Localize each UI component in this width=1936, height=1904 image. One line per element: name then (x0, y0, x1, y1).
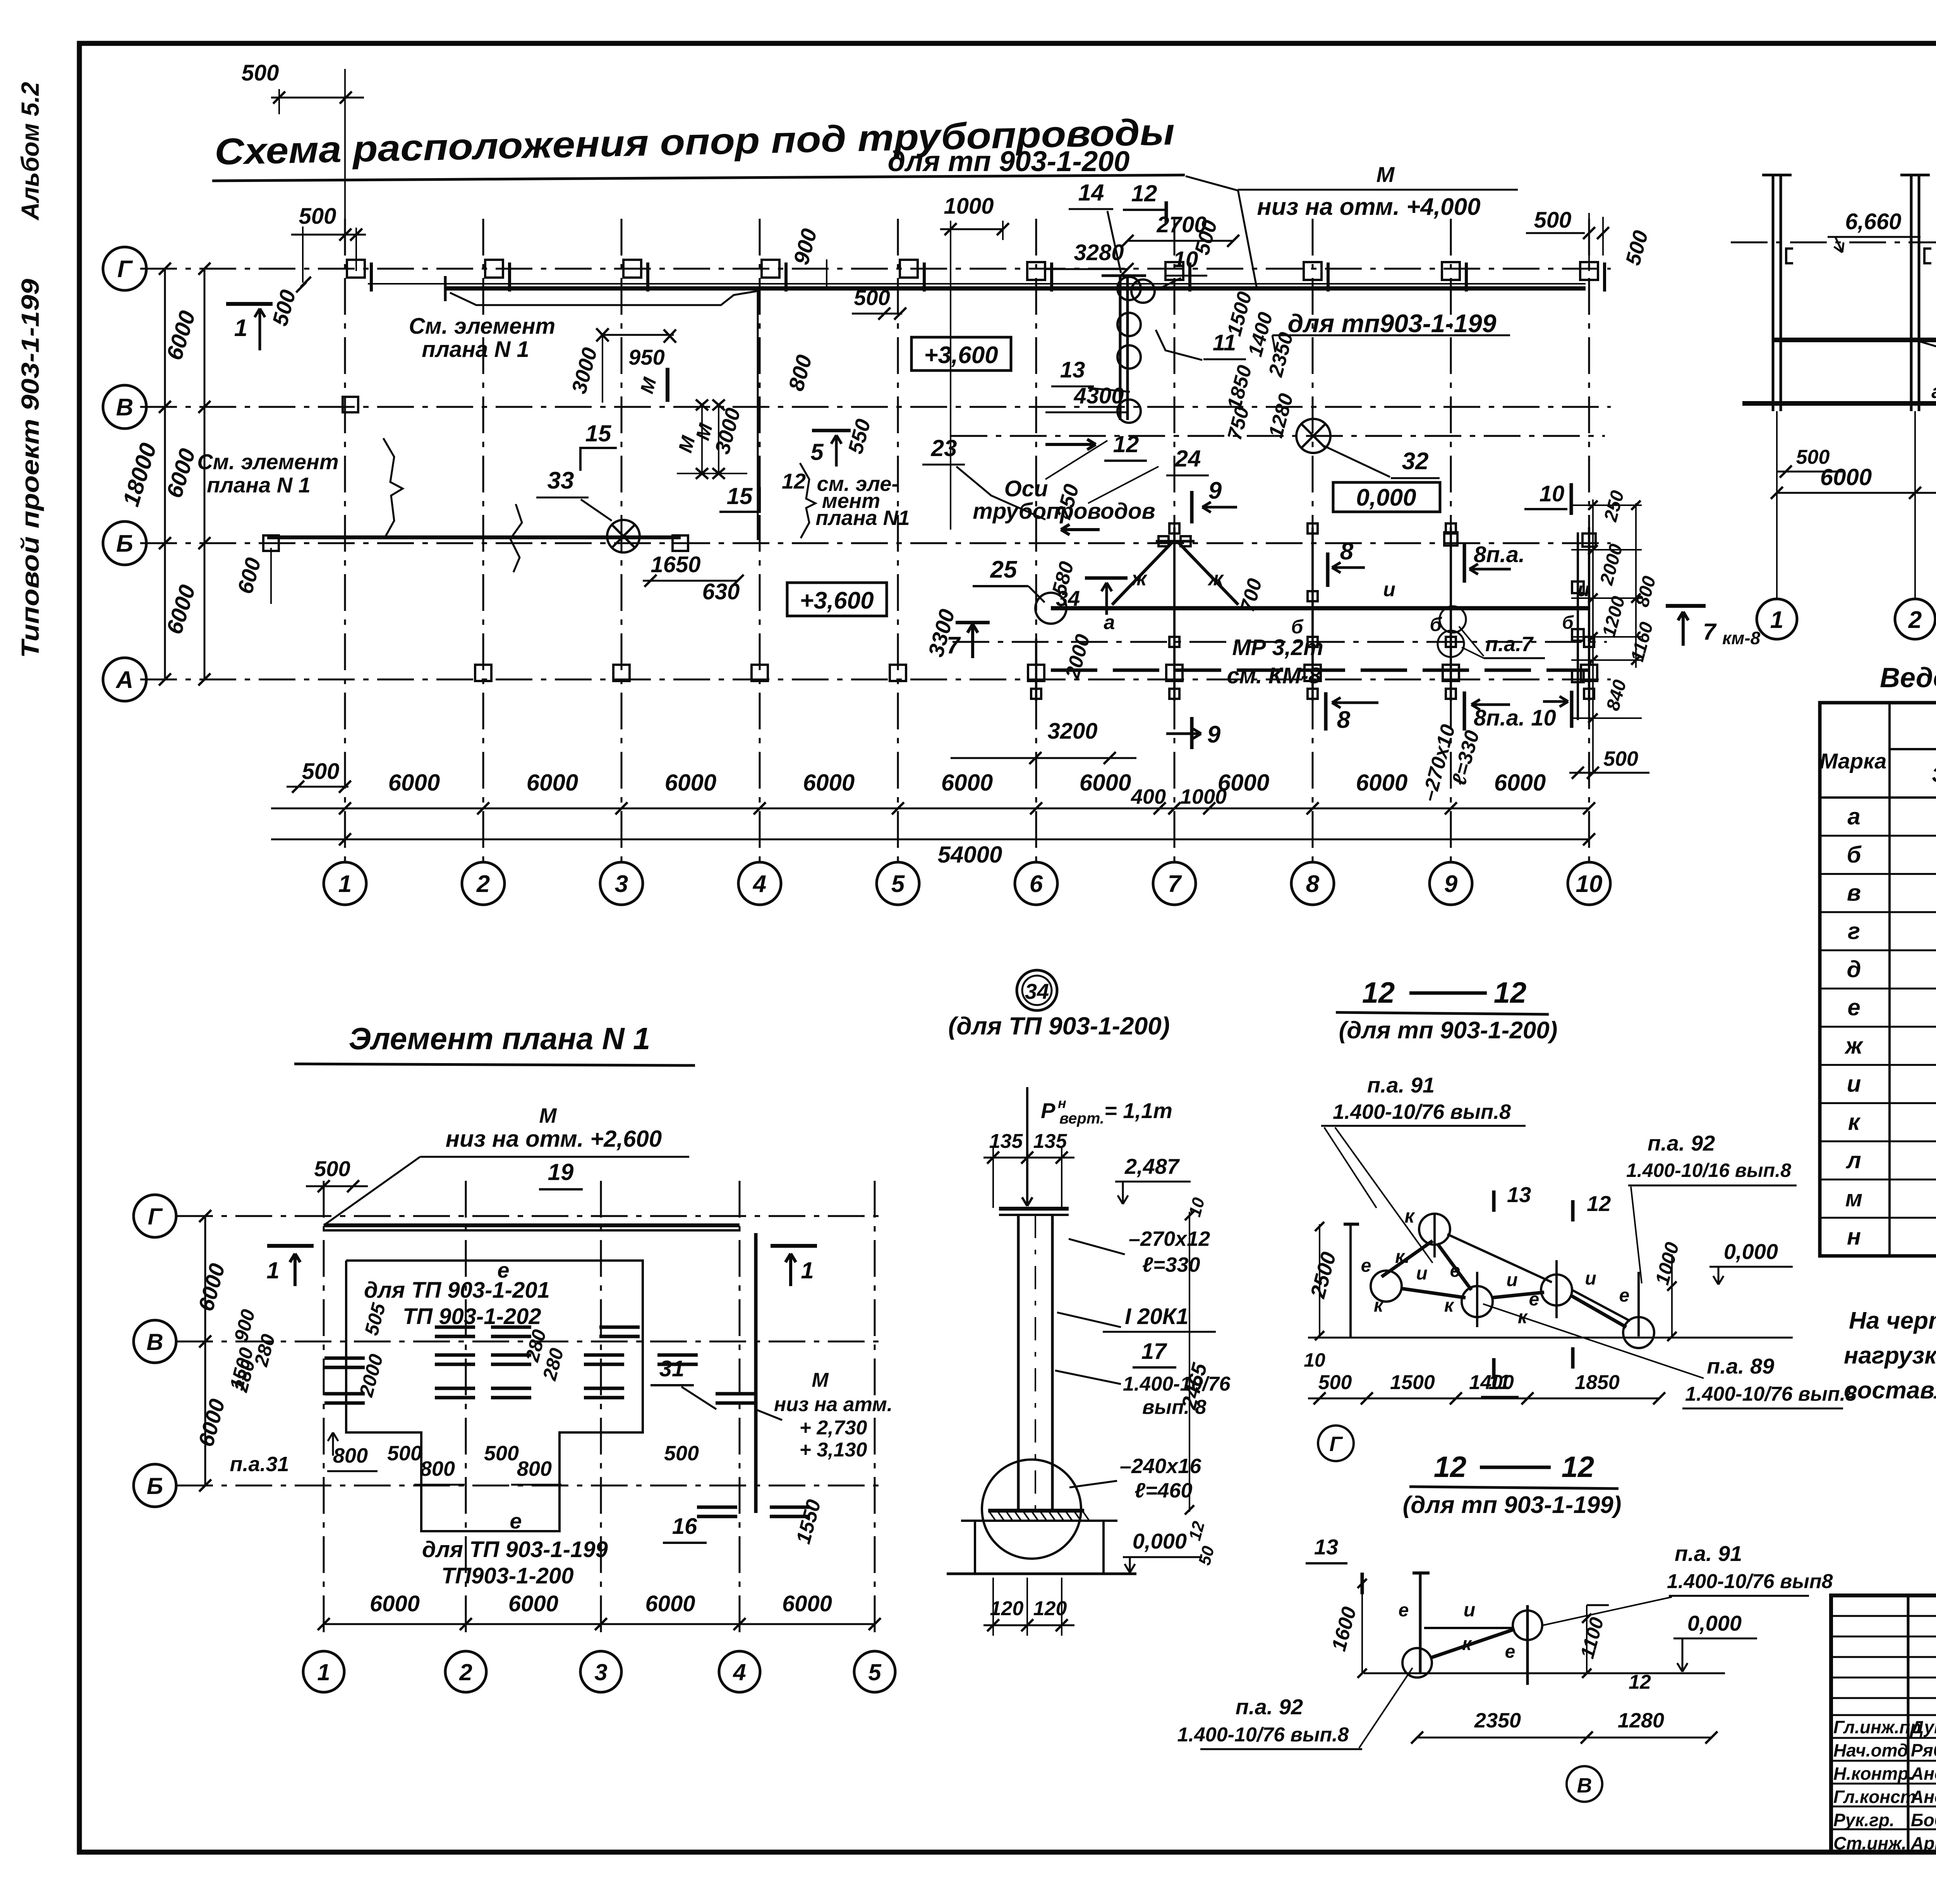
svg-text:(для тп 903-1-200): (для тп 903-1-200) (1339, 1017, 1558, 1044)
element grid row Г (176, 1215, 887, 1217)
elevation box +3,600 upper (911, 337, 1011, 371)
svg-text:12: 12 (1587, 1191, 1611, 1216)
svg-text:к: к (1444, 1295, 1455, 1316)
svg-text:п.а.7: п.а.7 (1485, 633, 1534, 656)
section marks 8 п.а. (1463, 543, 1466, 583)
svg-text:500: 500 (387, 1442, 422, 1465)
section dimension chain (1777, 492, 1936, 494)
grid row А axis line (140, 679, 1611, 681)
detail 34 load arrow (1026, 1087, 1028, 1206)
svg-text:1: 1 (266, 1257, 279, 1283)
svg-text:е: е (1399, 1600, 1409, 1621)
svg-text:1280: 1280 (1618, 1709, 1664, 1732)
svg-text:Г: Г (1329, 1432, 1343, 1456)
svg-text:д: д (1847, 956, 1861, 982)
svg-text:6000: 6000 (1494, 770, 1546, 796)
svg-text:2500: 2500 (1306, 1250, 1340, 1301)
svg-text:В: В (116, 394, 134, 421)
svg-text:низ на отм. +2,600: низ на отм. +2,600 (446, 1126, 662, 1152)
svg-text:Нач.отд: Нач.отд (1833, 1740, 1908, 1760)
svg-text:2000: 2000 (1061, 632, 1094, 681)
svg-text:Андриевская: Андриевская (1910, 1763, 1936, 1784)
svg-text:атм.2,600: атм.2,600 (1931, 381, 1936, 402)
svg-text:6000: 6000 (1080, 770, 1131, 796)
svg-text:и: и (1383, 578, 1395, 601)
truss top chord thick (1051, 606, 1589, 611)
svg-text:1280: 1280 (1265, 391, 1298, 440)
svg-text:33: 33 (548, 467, 574, 494)
element inner outline e (346, 1261, 643, 1531)
svg-text:В: В (1577, 1774, 1592, 1797)
svg-text:9: 9 (1208, 477, 1222, 504)
svg-text:е: е (1847, 995, 1860, 1021)
brace diagonals (1112, 542, 1172, 605)
svg-text:п.а. 92: п.а. 92 (1648, 1131, 1715, 1155)
svg-text:12: 12 (1185, 1519, 1208, 1542)
svg-text:ℓ=330: ℓ=330 (1142, 1253, 1200, 1276)
svg-text:м: м (1845, 1185, 1862, 1211)
svg-text:1000: 1000 (1180, 785, 1227, 808)
svg-text:Рук.гр.: Рук.гр. (1833, 1810, 1895, 1830)
detail 34 foundation (961, 1520, 1117, 1522)
svg-text:МР 3,2т: МР 3,2т (1232, 635, 1323, 660)
svg-text:для тп 903-1-200: для тп 903-1-200 (888, 145, 1130, 177)
svg-text:+3,600: +3,600 (924, 342, 998, 369)
grid column 9 marker circle (1430, 862, 1472, 905)
svg-text:13: 13 (1314, 1535, 1338, 1559)
svg-text:ж: ж (1131, 568, 1148, 590)
svg-text:25: 25 (990, 556, 1018, 583)
svg-text:для тп903-1-199: для тп903-1-199 (1288, 309, 1497, 338)
section columns (1772, 175, 1775, 411)
svg-text:Г: Г (117, 256, 133, 283)
svg-text:и: и (1847, 1071, 1861, 1097)
svg-text:Эскиз: Эскиз (1932, 762, 1936, 787)
svg-text:е: е (1361, 1256, 1371, 1276)
svg-text:Гл.инж.пр: Гл.инж.пр (1833, 1717, 1921, 1737)
svg-text:1650: 1650 (650, 552, 700, 577)
svg-text:12: 12 (1434, 1451, 1467, 1484)
svg-text:6000: 6000 (370, 1591, 420, 1616)
grid column 4 axis line (759, 219, 761, 863)
grid column 6 marker circle (1015, 862, 1057, 905)
svg-text:1: 1 (317, 1659, 330, 1685)
cross circle node 33 (607, 520, 640, 552)
svg-text:ТП903-1-200: ТП903-1-200 (441, 1563, 574, 1588)
curly brace leader left (383, 438, 403, 539)
element grid column 1 (323, 1181, 325, 1638)
svg-text:500: 500 (1603, 747, 1638, 770)
detail 34 top plate (999, 1207, 1069, 1211)
svg-text:500: 500 (299, 204, 336, 229)
svg-text:е: е (1450, 1261, 1461, 1281)
svg-text:32: 32 (1402, 448, 1429, 475)
title block signature rows (1831, 1714, 1936, 1716)
section mark 1 with arrow near col1 (226, 302, 273, 306)
section mark 7 left (971, 624, 974, 658)
column marker square row А col 5 (890, 665, 906, 681)
element support row В left (435, 1326, 475, 1329)
svg-text:1: 1 (234, 315, 247, 341)
svg-text:М: М (637, 375, 661, 396)
svg-text:800: 800 (784, 352, 817, 394)
plan bottom dimension chain 6000s (271, 808, 1589, 810)
svg-text:к: к (1462, 1634, 1473, 1654)
svg-text:16: 16 (672, 1514, 697, 1539)
plan left dimension chain 6000s (204, 269, 206, 679)
grid column 8 marker circle (1291, 862, 1334, 905)
svg-text:Б: Б (116, 530, 133, 557)
grid column 9 axis line (1450, 219, 1452, 863)
svg-text:500: 500 (268, 287, 300, 329)
svg-text:5: 5 (891, 871, 905, 897)
element grid row В (176, 1341, 887, 1343)
svg-text:1850: 1850 (1223, 363, 1256, 412)
svg-text:п.а. 91: п.а. 91 (1367, 1073, 1435, 1097)
svg-text:3280: 3280 (1074, 240, 1124, 265)
cross circle node 32 (1296, 419, 1330, 453)
svg-text:500: 500 (314, 1156, 350, 1181)
svg-text:8п.а.: 8п.а. (1474, 542, 1525, 567)
svg-text:ж: ж (1844, 1033, 1864, 1058)
svg-text:плана N1: плана N1 (815, 506, 910, 530)
svg-text:для ТП 903-1-199: для ТП 903-1-199 (422, 1537, 608, 1562)
svg-text:км-8: км-8 (1722, 628, 1761, 648)
grid column 8 axis line (1312, 219, 1314, 863)
svg-text:0,000: 0,000 (1724, 1239, 1778, 1264)
svg-text:3000: 3000 (567, 345, 602, 396)
pipe circles (1117, 277, 1141, 300)
svg-text:12: 12 (1629, 1671, 1651, 1693)
svg-text:800: 800 (420, 1457, 455, 1480)
svg-text:4: 4 (752, 871, 766, 897)
right vertical dimension chain (1592, 499, 1594, 774)
svg-text:10: 10 (1304, 1349, 1325, 1371)
grid column 1 marker circle (324, 862, 366, 905)
svg-text:б: б (1430, 614, 1443, 635)
svg-text:3: 3 (594, 1659, 607, 1685)
svg-text:см. КМ-8: см. КМ-8 (1227, 663, 1322, 688)
svg-text:12: 12 (1494, 976, 1527, 1009)
column marker square row А col 4 (752, 665, 768, 681)
svg-text:Г: Г (148, 1204, 163, 1230)
svg-text:400: 400 (1131, 785, 1166, 808)
svg-text:1850: 1850 (1575, 1371, 1620, 1394)
grid column 4 marker circle (738, 862, 781, 905)
column marker square row А col 8 (1304, 665, 1321, 681)
svg-text:н: н (1058, 1095, 1066, 1111)
svg-text:г: г (1848, 918, 1860, 944)
svg-text:2000: 2000 (1596, 542, 1627, 587)
svg-text:0,000: 0,000 (1687, 1611, 1742, 1635)
section ground line (1742, 401, 1936, 406)
svg-text:Оси: Оси (1004, 476, 1048, 501)
svg-text:6000: 6000 (645, 1591, 695, 1616)
svg-text:0,000: 0,000 (1356, 484, 1416, 511)
svg-text:низ на атм.: низ на атм. (774, 1393, 892, 1416)
svg-text:6000: 6000 (1356, 770, 1407, 796)
section mark 5-12 upper (812, 429, 851, 432)
grid row Б marker circle (103, 521, 146, 565)
truss node circle 25 (1035, 593, 1066, 624)
svg-text:6000: 6000 (388, 770, 440, 796)
svg-text:24: 24 (1175, 446, 1201, 472)
grid column 7 axis line (1174, 219, 1176, 863)
svg-text:Гл.конст: Гл.конст (1833, 1787, 1916, 1807)
svg-text:15: 15 (727, 483, 753, 509)
svg-text:505: 505 (360, 1300, 390, 1338)
svg-text:1.400-10/76 вып.8: 1.400-10/76 вып.8 (1333, 1100, 1511, 1124)
svg-text:8: 8 (1337, 707, 1351, 733)
break zigzag on pipe run (510, 504, 522, 572)
svg-text:9: 9 (1207, 721, 1221, 748)
svg-text:Р: Р (1041, 1098, 1056, 1123)
svg-text:л: л (1845, 1147, 1861, 1173)
svg-text:13: 13 (1507, 1182, 1531, 1207)
svg-text:6000: 6000 (161, 582, 200, 637)
svg-text:500: 500 (1318, 1371, 1352, 1394)
svg-text:(для ТП 903-1-200): (для ТП 903-1-200) (948, 1012, 1170, 1040)
svg-text:12: 12 (1562, 1451, 1594, 1484)
svg-text:Артамонова: Артамонова (1910, 1833, 1936, 1853)
svg-text:Марка: Марка (1820, 749, 1887, 773)
pipe circles on post 9 (1440, 606, 1466, 633)
element left dimension chain (204, 1216, 206, 1485)
svg-text:и: и (1464, 1599, 1476, 1621)
table row lines (1820, 835, 1936, 837)
svg-text:3000: 3000 (711, 406, 745, 457)
detail 12-12b truss (1419, 1573, 1422, 1673)
column marker square row Г col 7 (1165, 262, 1183, 280)
element grid column 4 (739, 1181, 741, 1638)
svg-text:к: к (1848, 1109, 1861, 1135)
svg-text:6000: 6000 (782, 1591, 832, 1616)
element section mark 1 right (771, 1244, 817, 1248)
column marker square row Г col 10 (1580, 262, 1598, 280)
element bottom dimension chain (324, 1623, 875, 1625)
pipe rack vertical run (1119, 276, 1122, 420)
svg-text:10: 10 (1576, 871, 1603, 897)
title block left columns (1907, 1595, 1910, 1854)
svg-text:14: 14 (1078, 180, 1104, 206)
svg-text:6000: 6000 (508, 1591, 558, 1616)
svg-text:54000: 54000 (938, 842, 1002, 868)
svg-text:1.400-10/16 вып.8: 1.400-10/16 вып.8 (1626, 1160, 1791, 1181)
svg-text:23: 23 (931, 435, 957, 461)
svg-text:= 1,1т: = 1,1т (1104, 1098, 1172, 1123)
svg-text:2350: 2350 (1474, 1709, 1521, 1732)
grid column 2 axis line (482, 219, 484, 863)
svg-text:См. элемент: См. элемент (197, 449, 338, 474)
detail 34 base plate (988, 1509, 1084, 1513)
svg-text:34: 34 (1025, 979, 1049, 1003)
svg-text:950: 950 (628, 345, 664, 369)
truss posts (1173, 527, 1176, 701)
svg-text:1200: 1200 (1599, 594, 1629, 639)
grid column 2 marker circle (462, 862, 505, 905)
svg-text:и: и (1506, 1270, 1517, 1290)
svg-text:Б: Б (147, 1473, 163, 1499)
subtitle leader (1186, 176, 1238, 190)
svg-text:6000: 6000 (194, 1396, 230, 1449)
svg-text:1550: 1550 (792, 1497, 826, 1546)
grid row Г marker circle (103, 247, 146, 290)
truss axis dash (953, 641, 1607, 643)
svg-text:500: 500 (1796, 446, 1830, 468)
grid row В axis line (140, 406, 1611, 408)
element grid column 5 (874, 1181, 876, 1638)
svg-text:низ на отм. +4,000: низ на отм. +4,000 (1257, 194, 1480, 220)
grid row Б axis line (140, 542, 1611, 544)
element section mark 1 left (267, 1244, 314, 1248)
detail 34 bubble (1017, 970, 1057, 1010)
column marker square row Г col 8 (1304, 262, 1322, 280)
section mark 34 (1085, 576, 1128, 580)
svg-text:1: 1 (801, 1257, 814, 1283)
grid row Г axis line (140, 268, 1611, 270)
column marker square row А col 7 (1166, 665, 1183, 681)
svg-text:плана N 1: плана N 1 (207, 473, 311, 497)
svg-text:1600: 1600 (1328, 1604, 1361, 1654)
svg-text:б: б (1291, 616, 1304, 638)
svg-text:5: 5 (868, 1659, 882, 1685)
svg-text:800: 800 (517, 1457, 552, 1480)
title block outer frame (1831, 1595, 1936, 1852)
svg-text:к.: к. (1395, 1247, 1410, 1267)
grid column 7 marker circle (1153, 862, 1196, 905)
svg-text:500: 500 (854, 285, 890, 310)
svg-text:1160: 1160 (1627, 620, 1657, 664)
svg-text:М: М (812, 1369, 829, 1391)
table header inner lines (1890, 748, 1936, 750)
svg-text:19: 19 (548, 1159, 574, 1185)
svg-text:8: 8 (1340, 538, 1354, 565)
element vertical pipe right (754, 1233, 758, 1513)
svg-text:1: 1 (338, 871, 352, 897)
svg-text:Думан: Думан (1909, 1717, 1936, 1737)
column squares row Б (263, 535, 279, 551)
svg-text:1: 1 (1770, 607, 1783, 633)
svg-text:1500: 1500 (1390, 1371, 1435, 1394)
svg-text:500: 500 (242, 60, 279, 86)
svg-text:М: М (1376, 162, 1395, 187)
upper pipe axis dash-dot (951, 435, 1605, 437)
svg-text:Альбом 5.2: Альбом 5.2 (16, 82, 44, 221)
svg-text:в: в (1847, 880, 1861, 906)
truss lower chord dashed thick (1051, 669, 1589, 672)
svg-text:трубопроводов: трубопроводов (973, 499, 1155, 524)
svg-text:а: а (1847, 803, 1860, 829)
svg-text:Бобрук: Бобрук (1911, 1810, 1936, 1830)
svg-text:7: 7 (1168, 871, 1182, 897)
detail 34 base bubble (982, 1460, 1081, 1559)
svg-text:и: и (1585, 1268, 1596, 1289)
svg-text:А: А (115, 667, 134, 693)
svg-text:17: 17 (1141, 1339, 1167, 1364)
svg-text:Ведомость: Ведомость (1880, 662, 1936, 693)
svg-text:500: 500 (1621, 228, 1653, 268)
svg-text:1.400-10/76 вып8: 1.400-10/76 вып8 (1667, 1570, 1833, 1593)
table vertical lines (1888, 703, 1891, 1256)
column marker square row А col 3 (613, 665, 630, 681)
svg-text:–270х12: –270х12 (1129, 1227, 1210, 1250)
svg-text:(для тп 903-1-199): (для тп 903-1-199) (1403, 1492, 1622, 1518)
svg-text:630: 630 (702, 579, 740, 604)
section marks 9 (1190, 491, 1194, 523)
column marker square row А col 9 (1443, 665, 1459, 681)
svg-text:1.400-10/76 вып.8: 1.400-10/76 вып.8 (1685, 1383, 1857, 1405)
detail 34 column shaft (1017, 1215, 1020, 1510)
section pipe axis dash-dot (1731, 242, 1936, 244)
grid column 1 axis line (344, 219, 346, 863)
svg-text:900: 900 (789, 226, 822, 268)
svg-text:1.400-10/76: 1.400-10/76 (1123, 1373, 1231, 1395)
svg-text:6000: 6000 (803, 770, 855, 796)
svg-text:2: 2 (1908, 607, 1922, 633)
column marker square row Г col 5 (900, 260, 918, 278)
svg-text:0,000: 0,000 (1133, 1529, 1187, 1553)
svg-text:500: 500 (664, 1442, 699, 1465)
section marks 8 (1326, 552, 1330, 587)
detail 12-12b ground line (1364, 1672, 1725, 1674)
column marker square row Г col 9 (1442, 262, 1460, 280)
svg-text:См. элемент: См. элемент (409, 314, 555, 339)
svg-text:4300: 4300 (1073, 383, 1124, 408)
svg-text:12: 12 (1131, 180, 1157, 206)
leader см. элемент плана N1 upper (450, 291, 757, 305)
grid column 5 marker circle (877, 862, 919, 905)
svg-text:составляющая на скользящую: составляющая на скользящую опору (1844, 1377, 1936, 1404)
svg-text:18000: 18000 (118, 440, 161, 509)
svg-text:50: 50 (1195, 1544, 1218, 1567)
section beam M (1773, 338, 1936, 342)
svg-text:7: 7 (1703, 619, 1717, 645)
svg-text:120: 120 (990, 1597, 1024, 1620)
svg-text:+ 2,730: + 2,730 (800, 1417, 867, 1439)
svg-text:1.400-10/76 вып.8: 1.400-10/76 вып.8 (1177, 1724, 1349, 1746)
vertical pipe line at column 3 (757, 288, 759, 540)
elevation box 0,000 plan (1333, 482, 1440, 512)
grid row В marker circle (103, 385, 146, 429)
grid row А marker circle (103, 658, 146, 701)
table outer frame (1820, 703, 1936, 1256)
svg-text:600: 600 (233, 555, 266, 597)
svg-text:Рябуха: Рябуха (1911, 1740, 1936, 1760)
svg-text:1000: 1000 (1651, 1240, 1683, 1287)
svg-text:250: 250 (1600, 488, 1628, 524)
svg-text:6000: 6000 (941, 770, 993, 796)
svg-text:М: М (539, 1104, 557, 1127)
svg-text:ℓ=460: ℓ=460 (1134, 1479, 1193, 1502)
column marker square row Г col 6 (1027, 262, 1045, 280)
svg-text:6000: 6000 (161, 308, 200, 363)
svg-text:е: е (1529, 1289, 1540, 1310)
plan left dimension chain 18000 (164, 269, 166, 679)
svg-text:500: 500 (302, 759, 340, 784)
column marker square row А col 2 (475, 665, 491, 681)
svg-text:5: 5 (810, 439, 824, 465)
svg-text:6: 6 (1030, 871, 1043, 897)
svg-text:нагрузки от трубопроводов. Г: нагрузки от трубопроводов. Горизонтальна… (1844, 1342, 1936, 1369)
svg-text:8п.а. 10: 8п.а. 10 (1474, 705, 1556, 731)
column marker square row А col 6 (1028, 665, 1044, 681)
detail 34 ground line (947, 1573, 1136, 1575)
svg-text:е: е (1619, 1285, 1630, 1306)
svg-text:3200: 3200 (1047, 719, 1097, 744)
svg-text:На чертежах в узлах даны: На чертежах в узлах даны вертикальные (1849, 1307, 1936, 1334)
detail 12-12b row circle В (1567, 1766, 1602, 1802)
svg-text:8: 8 (1306, 871, 1320, 897)
